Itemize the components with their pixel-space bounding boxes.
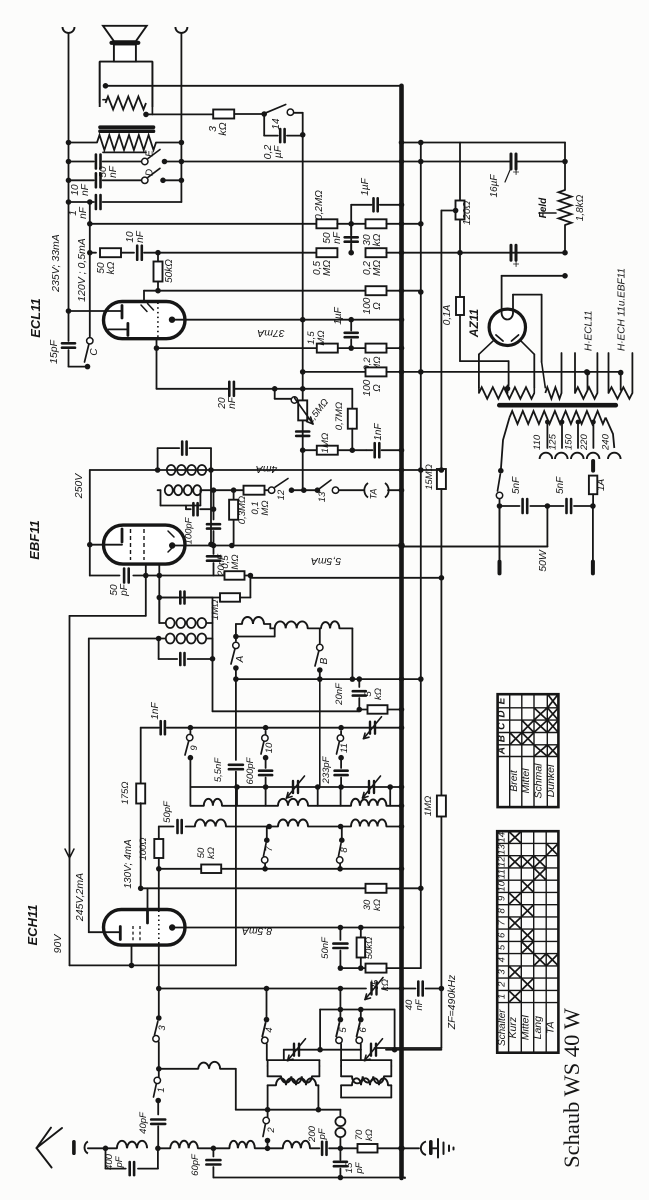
mains switch xyxy=(498,468,504,474)
svg-text:5nF: 5nF xyxy=(555,476,566,494)
wire 3k to switch14 xyxy=(234,113,264,115)
capacitor 50nF osc xyxy=(339,928,341,941)
row D: capacitor 10nF xyxy=(69,179,94,181)
svg-text:Lang: Lang xyxy=(532,1016,544,1040)
wire ECH cathode stub xyxy=(131,945,133,965)
capacitor 5nF right xyxy=(547,505,563,507)
resistor 0.2MOhm third xyxy=(366,344,387,353)
svg-text:1nF: 1nF xyxy=(373,422,384,440)
svg-text:7: 7 xyxy=(264,846,275,852)
svg-text:nF: nF xyxy=(332,231,343,244)
svg-text:Ω: Ω xyxy=(372,384,383,392)
X Mittel-B xyxy=(523,734,533,744)
resistor 0.2MOhm xyxy=(316,219,337,228)
trimmer SW xyxy=(370,1044,372,1056)
svg-text:1A: 1A xyxy=(596,478,607,491)
switch 9 xyxy=(187,734,193,740)
wire bus to ground xyxy=(402,1147,420,1149)
svg-text:1MΩ: 1MΩ xyxy=(423,796,434,816)
switch 14 xyxy=(287,109,293,115)
X Schmal-C xyxy=(535,721,546,731)
resistor 1MOhm det xyxy=(159,597,220,599)
wire row 372 right xyxy=(386,371,620,373)
capacitor 15pF xyxy=(68,311,70,341)
switch 13 xyxy=(317,480,331,490)
svg-text:C: C xyxy=(497,722,508,730)
resistor 70kOhm xyxy=(340,1147,357,1149)
svg-text:ECH11: ECH11 xyxy=(25,905,40,946)
wire railB lower xyxy=(440,489,442,1048)
svg-text:D: D xyxy=(497,710,508,717)
svg-text:1nF: 1nF xyxy=(150,701,161,719)
svg-text:kΩ: kΩ xyxy=(372,899,383,911)
ECL11 pentode plate dot xyxy=(169,317,175,323)
wire OT secondary left xyxy=(69,142,98,144)
trimmer padder xyxy=(370,983,372,995)
switch D xyxy=(142,177,148,183)
svg-text:9: 9 xyxy=(496,895,507,901)
capacitor 16uF lower xyxy=(510,245,513,260)
capacitor 1uF lower xyxy=(350,320,352,331)
wire sw12 row xyxy=(200,489,243,491)
wire 5.5mA row xyxy=(402,546,548,548)
bandfilter coil a xyxy=(236,623,242,625)
resistor 0.5MOhm det xyxy=(225,571,245,580)
capacitor 100pF xyxy=(185,506,187,510)
X 6-Mittel xyxy=(522,930,532,940)
node osc inj xyxy=(338,1146,344,1152)
IF1 tank1 xyxy=(159,597,177,599)
svg-text:245V,2mA: 245V,2mA xyxy=(74,873,86,922)
svg-text:8: 8 xyxy=(339,847,350,853)
svg-text:1µF: 1µF xyxy=(360,177,371,195)
wire row 965 AVC xyxy=(70,964,236,966)
wire left speaker lead xyxy=(68,33,70,311)
heater winding ECL11 xyxy=(575,387,597,399)
svg-text:1: 1 xyxy=(156,1087,167,1092)
rail A xyxy=(420,143,422,969)
svg-text:15MΩ: 15MΩ xyxy=(424,464,435,490)
resistor 0.2MOhm second xyxy=(366,248,387,257)
svg-text:nF: nF xyxy=(227,396,238,409)
AVC arrow xyxy=(65,849,70,858)
node ladder 252 xyxy=(348,250,354,256)
svg-text:20nF: 20nF xyxy=(334,682,345,706)
wire sw56 riser xyxy=(339,989,341,1010)
wire mains row xyxy=(499,499,501,562)
wire grid2 vertical xyxy=(88,639,90,933)
svg-text:4: 4 xyxy=(264,1027,275,1032)
EBF11 plate dot xyxy=(169,542,175,548)
osc coil row 826 xyxy=(195,819,226,826)
svg-text:+: + xyxy=(509,260,523,267)
wire row 372 xyxy=(303,371,367,373)
wire 50W row xyxy=(546,506,548,547)
capacitor 20nF osc xyxy=(358,679,360,687)
AZ11 filament lead left xyxy=(501,276,503,313)
X Dunkel-E xyxy=(548,695,557,707)
wire row 968 xyxy=(340,967,366,969)
svg-text:pF: pF xyxy=(317,1127,328,1140)
ECH11 top bar xyxy=(146,911,149,923)
wire row 252 to bus xyxy=(386,252,401,254)
capacitor 50nF ladder xyxy=(350,224,352,235)
resistor 100Ohm g2 xyxy=(366,286,387,295)
svg-text:250V: 250V xyxy=(73,473,85,500)
wire row 988 padder xyxy=(159,988,366,990)
wire AZ11 cathode link xyxy=(502,275,565,277)
mains plug pin right xyxy=(592,506,594,562)
wire grid coupling vertical xyxy=(89,202,91,337)
bus chassis xyxy=(399,86,404,1178)
antenna connector xyxy=(72,1142,76,1153)
resistor 0.3MOhm xyxy=(233,490,235,499)
wire wiper link xyxy=(274,389,276,399)
wire row E bus to Feld xyxy=(402,161,512,163)
svg-text:14: 14 xyxy=(496,832,507,843)
svg-text:10: 10 xyxy=(264,742,275,753)
X 9-Kurz xyxy=(510,893,521,903)
wire Feld vertical xyxy=(564,143,566,162)
wire 250V vertical xyxy=(89,470,91,576)
svg-text:50kΩ: 50kΩ xyxy=(364,937,375,960)
wire row 450 xyxy=(303,449,317,451)
speaker field housing xyxy=(100,62,153,107)
switch 6 xyxy=(360,1010,362,1020)
AZ11 filament to winding xyxy=(541,295,543,362)
svg-text:233pF: 233pF xyxy=(321,755,332,784)
wire fuse to CT xyxy=(460,360,509,362)
loudspeaker bar xyxy=(112,41,139,45)
node field tap xyxy=(103,83,109,89)
svg-text:240: 240 xyxy=(600,433,611,451)
svg-text:kΩ: kΩ xyxy=(217,122,229,135)
svg-text:100Ω: 100Ω xyxy=(138,837,149,860)
svg-text:5: 5 xyxy=(496,944,507,950)
svg-text:Feld: Feld xyxy=(538,197,549,218)
switch 10 xyxy=(262,735,268,741)
wire row 709 left xyxy=(213,710,360,712)
wire row 348 xyxy=(157,347,317,349)
antenna coil L3 xyxy=(213,1147,229,1149)
jack TA xyxy=(339,489,364,491)
trimmer main xyxy=(369,722,371,734)
bandfilter coil c xyxy=(320,627,321,629)
svg-text:MΩ: MΩ xyxy=(316,330,327,345)
ECL11 cathode bar xyxy=(109,328,128,330)
osc tank bracket legs xyxy=(236,787,238,806)
svg-text:C: C xyxy=(89,348,100,356)
wire OT secondary right xyxy=(156,142,181,144)
svg-text:60pF: 60pF xyxy=(190,1153,201,1176)
wire row 470 B+ xyxy=(90,469,442,471)
resistor 1.5MOhm railB xyxy=(437,469,446,489)
capacitor 600pF xyxy=(265,731,267,734)
switch 1 xyxy=(154,1077,160,1083)
node L1 right xyxy=(155,1146,161,1152)
X 10-Mittel xyxy=(522,881,532,891)
IF1 tank2 xyxy=(158,639,160,660)
loudspeaker cone xyxy=(103,26,147,41)
svg-text:50W: 50W xyxy=(537,549,549,572)
antenna tank1 left xyxy=(283,1050,285,1060)
bandfilter step xyxy=(269,624,271,628)
switch 3 xyxy=(156,1015,162,1021)
X 13-TA xyxy=(547,844,557,854)
svg-text:10: 10 xyxy=(496,880,507,891)
svg-text:37mA: 37mA xyxy=(257,327,284,339)
capacitor 1nF AF xyxy=(373,443,376,457)
svg-text:1,8kΩ: 1,8kΩ xyxy=(575,194,586,221)
svg-text:E: E xyxy=(145,150,156,157)
svg-text:E: E xyxy=(497,697,508,704)
wire row 887 osc grid xyxy=(138,886,144,892)
ECL11 triode plate bar xyxy=(121,306,124,319)
svg-text:nF: nF xyxy=(80,183,91,196)
node 50k/10n xyxy=(155,250,161,256)
wire ECL11 g2 riser xyxy=(143,291,145,302)
svg-text:4: 4 xyxy=(496,957,507,962)
svg-text:220: 220 xyxy=(579,433,590,451)
svg-text:D: D xyxy=(145,169,156,176)
tank SW loop xyxy=(341,1059,391,1061)
switch E xyxy=(142,158,148,164)
rectifier AZ11 envelope xyxy=(489,309,525,345)
X 3-Kurz xyxy=(510,967,521,977)
capacitor 20nF below pot xyxy=(296,430,309,433)
svg-text:5nF: 5nF xyxy=(511,476,522,494)
capacitor 40pF xyxy=(157,1101,159,1115)
svg-text:125: 125 xyxy=(547,433,558,450)
field coil winding xyxy=(106,97,147,110)
ECL11 triode grid wire xyxy=(69,310,123,312)
trimmer row787 b xyxy=(368,781,370,793)
osc LW coil xyxy=(158,1069,160,1080)
X Dunkel-D xyxy=(548,709,557,719)
IF1 tank2 coil xyxy=(166,634,175,644)
svg-text:5,5mA: 5,5mA xyxy=(311,555,341,567)
primary taps xyxy=(545,420,550,425)
wire bracket legs xyxy=(319,1010,321,1050)
main spine vertical xyxy=(158,869,160,910)
wire row 223.8 right xyxy=(386,223,421,225)
ECH11 internals xyxy=(132,926,134,942)
capacitor 16uF upper xyxy=(510,154,513,169)
IF1 tank1 coil xyxy=(166,618,175,628)
node antenna xyxy=(103,1146,109,1152)
switch 11 xyxy=(337,735,343,741)
node heater ECH ct xyxy=(618,370,624,376)
X Breit-B xyxy=(511,734,521,744)
node sw2 xyxy=(265,1146,271,1152)
resistor 1MOhm AF xyxy=(317,446,338,455)
svg-text:3: 3 xyxy=(157,1025,168,1031)
svg-text:Breit: Breit xyxy=(508,769,520,792)
node heater ECL ct xyxy=(585,370,591,376)
resistor 3kOhm xyxy=(213,110,234,119)
ECH11 plate dot xyxy=(169,924,175,930)
svg-text:50nF: 50nF xyxy=(320,936,331,959)
wire EBF11 plate row xyxy=(172,545,401,547)
svg-text:EBF11: EBF11 xyxy=(27,520,42,560)
svg-text:nF: nF xyxy=(414,998,425,1010)
node 60pF xyxy=(211,1146,217,1152)
svg-text:Dunkel: Dunkel xyxy=(545,764,557,797)
table Schalter xyxy=(497,831,558,1052)
X 12-Mittel xyxy=(522,857,532,867)
switch C xyxy=(69,366,88,368)
svg-text:pF: pF xyxy=(114,1155,125,1168)
svg-text:Mittel: Mittel xyxy=(520,1014,532,1040)
svg-text:pF: pF xyxy=(354,1161,365,1174)
svg-text:TA: TA xyxy=(544,1021,556,1034)
svg-text:2: 2 xyxy=(496,981,507,988)
X 4-Lang xyxy=(535,955,546,965)
svg-text:Kurz: Kurz xyxy=(507,1016,519,1038)
trimmer MW xyxy=(293,1044,295,1056)
svg-text:90V: 90V xyxy=(52,934,64,954)
X 5-Mittel xyxy=(522,942,532,952)
tube ECH11 envelope xyxy=(104,910,186,946)
svg-text:8: 8 xyxy=(496,907,507,913)
svg-text:Ω: Ω xyxy=(372,302,383,310)
svg-text:A: A xyxy=(497,747,508,755)
antenna coil L1 xyxy=(117,1141,147,1149)
wire screen row xyxy=(144,290,421,292)
wire AVC corner xyxy=(70,615,146,617)
svg-text:600pF: 600pF xyxy=(245,756,256,784)
resistor 30kOhm upper xyxy=(366,219,387,228)
switch 5 xyxy=(339,1010,341,1020)
mains plug pin left xyxy=(499,506,501,562)
svg-text:TA: TA xyxy=(369,489,379,500)
node 20nF bottom xyxy=(357,707,363,713)
ground symbol xyxy=(431,1147,438,1149)
antenna coil L2 xyxy=(158,1147,170,1149)
svg-text:12: 12 xyxy=(496,856,507,867)
IF2 primary coil xyxy=(167,465,176,475)
svg-text:120Ω: 120Ω xyxy=(462,200,473,225)
fuse 1A xyxy=(591,461,595,471)
wire EBF cathode legs xyxy=(145,564,147,616)
wire right speaker lead xyxy=(180,33,182,202)
wire row 679 xyxy=(236,678,402,680)
svg-text:MΩ: MΩ xyxy=(260,500,271,515)
wire sw12-13 xyxy=(292,489,318,491)
wire 50k row xyxy=(90,252,96,254)
capacitor 60pF xyxy=(212,1148,214,1156)
AZ11 anode marks xyxy=(496,335,503,341)
capacitor 233pF xyxy=(340,731,342,734)
diode coupling cap xyxy=(213,490,215,519)
potentiometer 1.5MOhm xyxy=(298,400,307,420)
fuse 0.1A xyxy=(459,253,461,297)
node HV center tap xyxy=(505,386,511,392)
resistor 30kOhm osc xyxy=(366,884,387,893)
X 8-Mittel xyxy=(522,906,532,916)
svg-text:2: 2 xyxy=(266,1127,277,1134)
svg-text:50kΩ: 50kΩ xyxy=(164,259,175,283)
svg-text:175Ω: 175Ω xyxy=(120,781,131,804)
svg-text:MΩ: MΩ xyxy=(230,554,241,569)
svg-text:4mA: 4mA xyxy=(256,463,278,475)
wire sw9 chain xyxy=(189,731,191,735)
capacitor 20nF det xyxy=(213,546,215,555)
X 1-Kurz xyxy=(510,991,521,1001)
transformer primary xyxy=(510,411,606,424)
bandfilter bypass xyxy=(233,634,239,640)
row E: capacitor 50nF xyxy=(69,161,94,163)
X 12-Kurz xyxy=(510,857,521,867)
resistor 50kOhm grid leak xyxy=(154,262,163,282)
resistor 5kOhm xyxy=(359,709,366,711)
svg-text:+: + xyxy=(509,168,523,175)
resistor 50kOhm xyxy=(100,248,121,257)
terminal hook right xyxy=(175,27,187,33)
wire field tap to bus xyxy=(106,85,402,87)
svg-text:16µF: 16µF xyxy=(489,174,500,198)
wire ECL11 plate row xyxy=(172,319,402,321)
row 1nF capacitor xyxy=(69,201,94,203)
svg-text:nF: nF xyxy=(108,165,119,178)
svg-text:MΩ: MΩ xyxy=(322,260,333,276)
resistor 1.5MOhm row xyxy=(317,344,338,353)
wire row 252 bus to fuse xyxy=(402,252,566,254)
wire B leg lower xyxy=(319,679,321,787)
ECH11 grid bar xyxy=(89,931,121,933)
svg-text:MΩ: MΩ xyxy=(372,260,383,276)
svg-text:H·ECH 11u.EBF11: H·ECH 11u.EBF11 xyxy=(617,268,628,351)
wire row 142 B+ xyxy=(402,142,566,144)
wire row 252 to ladder xyxy=(158,252,317,254)
svg-text:120V ; 0,5mA: 120V ; 0,5mA xyxy=(76,238,88,302)
X Dunkel-A xyxy=(548,746,557,756)
svg-text:13: 13 xyxy=(496,844,507,855)
IF2 secondary coil xyxy=(165,485,173,495)
osc coil row 806 xyxy=(204,799,222,806)
svg-text:7: 7 xyxy=(496,920,507,926)
wire B+ vertical from OT xyxy=(302,113,304,490)
svg-text:150: 150 xyxy=(563,433,574,450)
svg-text:9: 9 xyxy=(189,745,200,751)
tank MW loop xyxy=(268,1059,320,1061)
switch B xyxy=(319,628,321,643)
switch 7 xyxy=(264,837,270,843)
node bias tap xyxy=(453,208,459,214)
EBF11 internals xyxy=(130,529,132,560)
terminal hook left xyxy=(63,27,75,33)
wire bracket xyxy=(320,1009,395,1011)
wire sw14 to corner xyxy=(294,112,303,114)
svg-text:Schaub WS 40 W: Schaub WS 40 W xyxy=(559,1007,584,1168)
IF2 secondary tank xyxy=(158,489,161,491)
X 14-Kurz xyxy=(510,832,521,842)
output transformer core bars xyxy=(100,125,154,129)
svg-text:50pF: 50pF xyxy=(162,800,173,823)
capacitor 5.5nF xyxy=(235,679,237,760)
capacitor 10nF coupling xyxy=(136,246,139,260)
wire row575 to railB xyxy=(250,577,441,579)
wire ECL cathode stub xyxy=(156,339,158,389)
capacitor 400pF xyxy=(105,1148,107,1168)
switch 12 xyxy=(265,489,269,491)
svg-text:1: 1 xyxy=(496,994,507,999)
bandfilter coil b xyxy=(270,627,274,629)
svg-text:kΩ: kΩ xyxy=(364,1129,375,1141)
svg-text:11: 11 xyxy=(339,743,350,753)
AZ11 filament lead right xyxy=(513,294,542,296)
wire row 787 xyxy=(190,786,401,788)
